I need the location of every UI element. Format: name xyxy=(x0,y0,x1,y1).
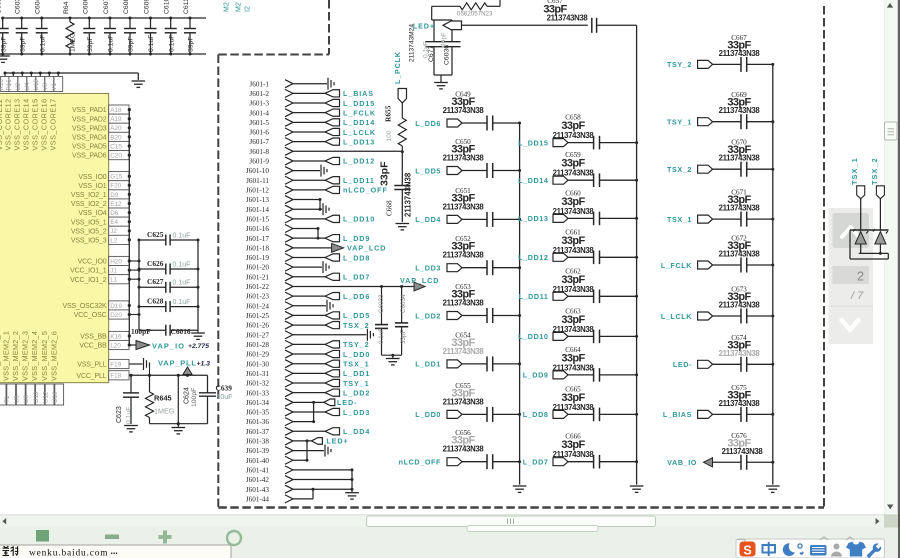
svg-text:J601-39: J601-39 xyxy=(246,447,270,455)
capacitor C655 33pF xyxy=(447,410,462,418)
capacitor C661 33pF xyxy=(553,253,568,261)
svg-text:VSS_IO0: VSS_IO0 xyxy=(78,174,106,181)
svg-text:D19: D19 xyxy=(110,303,122,310)
UI nav up button xyxy=(833,213,870,248)
svg-text:J601-26: J601-26 xyxy=(246,322,270,330)
capacitor C671 33pF xyxy=(698,215,713,223)
wire center branch xyxy=(177,375,179,423)
svg-text:F18: F18 xyxy=(110,373,121,380)
svg-text:2113743N38: 2113743N38 xyxy=(404,172,413,217)
wire column2 bus xyxy=(636,25,638,484)
wire J601-38 xyxy=(293,440,311,442)
UI scrollbar thumb xyxy=(885,122,898,140)
svg-text:VCC_IO1_1: VCC_IO1_1 xyxy=(70,268,107,275)
UI sogou moon icon xyxy=(783,543,796,556)
wire join 38-40 xyxy=(306,441,308,460)
wire J601-33 xyxy=(293,392,325,394)
svg-text:2113743N38: 2113743N38 xyxy=(443,299,485,308)
svg-text:TSX_1: TSX_1 xyxy=(343,359,369,368)
svg-text:J601-13: J601-13 xyxy=(246,196,270,204)
svg-text:L_DD6: L_DD6 xyxy=(415,119,441,128)
svg-text:L_LCLK: L_LCLK xyxy=(343,128,376,137)
svg-text:R16: R16 xyxy=(0,79,5,91)
svg-text:TSX_1: TSX_1 xyxy=(667,215,692,224)
svg-text:39pF: 39pF xyxy=(188,37,195,53)
svg-text:L_DD0: L_DD0 xyxy=(343,350,370,359)
svg-text:39pF: 39pF xyxy=(87,37,94,53)
UI scrollbar corner xyxy=(884,515,900,528)
svg-text:J2: J2 xyxy=(110,228,117,235)
svg-text:Y1: Y1 xyxy=(51,82,58,90)
net label TSX_2 xyxy=(325,321,340,328)
wire J601-14 xyxy=(293,208,322,210)
svg-text:2113743N38: 2113743N38 xyxy=(719,49,761,58)
net label L_DD2 xyxy=(325,389,340,396)
svg-text:VSS_CORE17: VSS_CORE17 xyxy=(49,98,58,150)
svg-text:0.1uF: 0.1uF xyxy=(126,407,133,424)
svg-text:C6034: C6034 xyxy=(400,294,407,313)
svg-text:2113743N38: 2113743N38 xyxy=(719,154,761,163)
svg-text:S: S xyxy=(743,544,751,558)
net label L_BIAS xyxy=(325,90,340,97)
junction pin K16 xyxy=(128,334,131,337)
svg-text:C607: C607 xyxy=(103,0,110,14)
capacitor C665 33pF xyxy=(553,410,568,418)
svg-text:J601-22: J601-22 xyxy=(246,283,270,291)
svg-text:J601-25: J601-25 xyxy=(246,312,270,320)
ground (C677) xyxy=(434,82,448,84)
svg-text:2113743N38: 2113743N38 xyxy=(553,285,595,294)
svg-text:1MEG: 1MEG xyxy=(154,407,175,416)
svg-text:2113743N38: 2113743N38 xyxy=(443,106,485,115)
junction pin L2 xyxy=(128,238,131,241)
svg-text:R64: R64 xyxy=(63,1,70,14)
capacitor C672 33pF xyxy=(698,261,713,269)
UI status text 等待 xyxy=(3,546,19,556)
svg-text:VSS_IO1: VSS_IO1 xyxy=(78,183,106,190)
junction pin F20 xyxy=(128,184,131,187)
svg-text:L_DD7: L_DD7 xyxy=(343,273,370,282)
svg-text:C624: C624 xyxy=(184,387,191,404)
pin U4 VSS_CORE xyxy=(30,72,33,75)
svg-text:U8: U8 xyxy=(23,395,30,403)
svg-text:L_DD4: L_DD4 xyxy=(415,215,441,224)
svg-text:J601-23: J601-23 xyxy=(246,293,270,301)
net label L_DD1 xyxy=(325,370,340,377)
svg-text:J601-17: J601-17 xyxy=(246,235,270,243)
junction pin D20 xyxy=(128,313,131,316)
svg-text:J1: J1 xyxy=(110,268,117,275)
svg-text:J601-18: J601-18 xyxy=(246,244,270,252)
pin U8 VSS_MEM2_3 xyxy=(26,384,35,405)
svg-text:C626: C626 xyxy=(147,259,164,268)
wire J601-28 xyxy=(293,343,325,345)
svg-text:33pF: 33pF xyxy=(400,329,407,344)
svg-text:J601-15: J601-15 xyxy=(246,215,270,223)
UI hscroll thumb xyxy=(367,516,656,527)
UI sogou S logo xyxy=(740,542,756,557)
capacitor C674 33pF xyxy=(698,360,713,368)
svg-text:VSS_IO5_3: VSS_IO5_3 xyxy=(71,238,107,245)
wire VCC pin to rail xyxy=(129,260,139,262)
wire J601-27 xyxy=(293,334,366,336)
svg-text:2113743N38: 2113743N38 xyxy=(553,131,595,140)
net label L_DD4 xyxy=(325,428,340,435)
svg-text:VCC_OSC: VCC_OSC xyxy=(74,312,107,319)
svg-text:2113743N38: 2113743N38 xyxy=(443,251,485,260)
ground (column2) xyxy=(630,485,644,487)
svg-text:C639: C639 xyxy=(216,384,233,393)
UI hscroll left arrow xyxy=(2,518,6,524)
wire join 34-36 xyxy=(313,402,315,421)
UI sogou wrench icon xyxy=(867,543,882,558)
capacitor C669 33pF xyxy=(698,118,713,126)
svg-text:H20: H20 xyxy=(110,258,122,265)
wire PLL bottom rail xyxy=(150,423,208,425)
wire J601-18 xyxy=(293,247,332,249)
svg-text:TSY_2: TSY_2 xyxy=(343,340,369,349)
svg-text:C6036: C6036 xyxy=(444,45,451,65)
wire J601-39 xyxy=(293,450,324,452)
svg-text:I2: I2 xyxy=(245,6,252,12)
svg-text:R645: R645 xyxy=(154,393,172,402)
svg-text:C608: C608 xyxy=(123,0,130,14)
wire J601-42 xyxy=(293,479,352,481)
wire J601-41 xyxy=(293,469,352,471)
svg-text:39pF: 39pF xyxy=(128,37,135,53)
power port VAB_IO xyxy=(704,458,713,467)
wire top bypass rail xyxy=(3,17,206,19)
wire diode cathode bar xyxy=(850,229,889,231)
svg-text:2113743N38: 2113743N38 xyxy=(443,202,485,211)
svg-text:L_FCLK: L_FCLK xyxy=(661,261,692,270)
svg-text:VSS_IO5_2: VSS_IO5_2 xyxy=(71,228,107,235)
wire J601-22 xyxy=(293,285,414,287)
wire TSX drop xyxy=(860,199,862,230)
svg-text:L_BIAS: L_BIAS xyxy=(663,410,692,419)
svg-text:2113743N38: 2113743N38 xyxy=(719,399,761,408)
svg-text:L_DD12: L_DD12 xyxy=(343,157,375,166)
svg-text:2113743N38: 2113743N38 xyxy=(443,397,485,406)
ground (J601-1) xyxy=(327,78,329,90)
ground (J601-27) xyxy=(366,329,368,341)
svg-text:J601-35: J601-35 xyxy=(246,409,270,417)
svg-text:J601-14: J601-14 xyxy=(246,206,270,214)
svg-text:VSS_PAD2: VSS_PAD2 xyxy=(72,116,107,123)
wire J601-19 xyxy=(293,256,325,258)
resistor R655 100 xyxy=(401,103,403,118)
svg-text:VSS_PLL: VSS_PLL xyxy=(77,362,107,369)
svg-text:J601-40: J601-40 xyxy=(246,457,270,465)
wire VSS_CORE top rail xyxy=(5,72,138,74)
power port VAP_IO +2.775 xyxy=(129,344,136,346)
pin U12 VSS_MEM2_5 xyxy=(45,384,54,405)
wire J601-21 xyxy=(293,276,325,278)
wire join 43-44 xyxy=(312,489,314,499)
svg-text:D9: D9 xyxy=(110,192,119,199)
svg-text:VSS_CORE13: VSS_CORE13 xyxy=(13,98,22,150)
wire VCC pin to rail xyxy=(129,314,139,316)
svg-text:2113743N38: 2113743N38 xyxy=(719,349,761,358)
svg-text:J601-1: J601-1 xyxy=(249,80,269,88)
svg-text:R655: R655 xyxy=(384,105,393,122)
svg-text:J601-27: J601-27 xyxy=(246,331,270,339)
svg-text:P16: P16 xyxy=(6,79,13,91)
svg-text:J601-8: J601-8 xyxy=(249,148,269,156)
UI toolbar icon circle xyxy=(227,531,241,545)
capacitor C652 33pF xyxy=(447,264,462,272)
ground (J601-10) xyxy=(320,165,322,177)
junction pin L1 xyxy=(128,278,131,281)
svg-text:VSS_PAD4: VSS_PAD4 xyxy=(72,135,107,142)
svg-text:/ 7: / 7 xyxy=(850,290,864,302)
svg-text:2113743N38: 2113743N38 xyxy=(553,363,595,372)
svg-text:L_DD11: L_DD11 xyxy=(519,292,549,301)
svg-text:VSS_MEM2_5: VSS_MEM2_5 xyxy=(40,331,49,381)
svg-text:33pF: 33pF xyxy=(379,161,391,186)
capacitor C656 33pF xyxy=(447,458,462,466)
UI sogou punct icon xyxy=(798,544,802,548)
net label TSY_1 xyxy=(325,379,340,386)
svg-text:L_DD6: L_DD6 xyxy=(343,292,370,301)
UI scrollbar down arrow xyxy=(887,505,893,510)
svg-text:L20: L20 xyxy=(110,342,121,349)
svg-text:VSS_PAD1: VSS_PAD1 xyxy=(72,107,107,114)
svg-text:2113743N38: 2113743N38 xyxy=(719,250,761,259)
wire TSX drop xyxy=(879,199,881,230)
svg-text:C627: C627 xyxy=(147,277,164,286)
svg-text:VSS_MEM2_6: VSS_MEM2_6 xyxy=(49,331,58,381)
wire VSS bus xyxy=(128,110,130,345)
pin U18 VSS_CORE xyxy=(39,72,42,75)
svg-text:L_PCLK: L_PCLK xyxy=(393,51,402,84)
svg-text:0.1uF: 0.1uF xyxy=(378,328,385,344)
svg-text:VSS_CORE16: VSS_CORE16 xyxy=(40,98,49,150)
svg-text:N1: N1 xyxy=(0,395,1,403)
junction pin C15 xyxy=(128,144,131,147)
pin V3 VSS_CORE xyxy=(48,72,51,75)
svg-text:L_DD7: L_DD7 xyxy=(523,458,549,467)
ground (C623) xyxy=(124,425,138,427)
capacitor C658 33pF xyxy=(553,139,568,147)
junction pin J2 xyxy=(128,229,131,232)
svg-text:J601-5: J601-5 xyxy=(249,119,269,127)
net label L_DD13 xyxy=(325,138,340,145)
svg-text:C603: C603 xyxy=(15,0,22,14)
svg-text:J601-31: J601-31 xyxy=(246,370,270,378)
UI sogou person icon xyxy=(834,544,840,550)
svg-text:J601-36: J601-36 xyxy=(246,418,270,426)
svg-text:VSS_CORE14: VSS_CORE14 xyxy=(22,98,31,150)
svg-text:L_DD14: L_DD14 xyxy=(518,176,548,185)
pin P16 VSS_CORE xyxy=(12,72,15,75)
svg-text:C609: C609 xyxy=(144,0,151,14)
wire J601-32 xyxy=(293,382,325,384)
svg-text:VSS_MEM2_3: VSS_MEM2_3 xyxy=(21,331,30,381)
svg-text:C611: C611 xyxy=(183,0,190,14)
wire rail A xyxy=(138,240,140,330)
UI nav down button xyxy=(842,320,859,330)
svg-text:C606: C606 xyxy=(82,0,89,14)
svg-text:2113743N38: 2113743N38 xyxy=(443,445,485,454)
wire bypass bottom rail xyxy=(0,53,206,55)
capacitor C666 33pF xyxy=(553,458,568,466)
svg-text:+2.775: +2.775 xyxy=(188,343,209,350)
svg-text:VSS_CORE15: VSS_CORE15 xyxy=(31,98,40,150)
svg-text:VCC_IO0: VCC_IO0 xyxy=(78,259,107,266)
capacitor C675 33pF xyxy=(698,410,713,418)
ground (column1) xyxy=(513,485,527,487)
net label L_DD3 xyxy=(325,408,340,415)
wire J601-17 xyxy=(293,237,325,239)
capacitor C6034 33pF xyxy=(401,286,403,322)
svg-text:VSS_OSC32K: VSS_OSC32K xyxy=(62,303,107,310)
capacitor C677 0.1uF xyxy=(433,20,435,42)
svg-text:2113743N38: 2113743N38 xyxy=(443,154,485,163)
svg-text:L_DD2: L_DD2 xyxy=(343,388,370,397)
ground (VSS_CORE rail) xyxy=(132,80,146,82)
svg-text:J601-16: J601-16 xyxy=(246,225,270,233)
UI scrollbar up arrow xyxy=(887,3,893,8)
svg-text:J601-33: J601-33 xyxy=(246,389,270,397)
UI toolbar icon square xyxy=(36,530,49,542)
svg-text:100pF: 100pF xyxy=(191,388,198,407)
svg-text:VCC_IO1_2: VCC_IO1_2 xyxy=(70,277,107,284)
wire J601-2 xyxy=(293,92,325,94)
net label L_DD5 xyxy=(325,312,340,319)
svg-text:J601-11: J601-11 xyxy=(246,177,269,185)
net label L_DD15 xyxy=(325,99,340,106)
svg-text:VSS_PAD3: VSS_PAD3 xyxy=(72,125,107,132)
wire VCC pin to rail xyxy=(129,278,139,280)
pin Y1 VSS_CORE xyxy=(57,72,60,75)
ground (J601-39) xyxy=(324,445,326,457)
junction pin B20 xyxy=(128,135,131,138)
capacitor C676 33pF xyxy=(713,461,742,463)
wire join 16-17 xyxy=(317,229,319,239)
ground (J601-14) xyxy=(322,203,324,215)
ground (PLL rail) xyxy=(177,424,179,427)
capacitor C625 0.1uF xyxy=(139,239,166,241)
capacitor C6033 0.1uF xyxy=(381,286,383,324)
svg-text:LED+: LED+ xyxy=(326,437,348,446)
wire column1 bus xyxy=(519,123,521,485)
wire RC bottom xyxy=(382,354,402,356)
svg-text:U18: U18 xyxy=(33,79,40,91)
capacitor C603 39pF xyxy=(21,18,23,29)
svg-text:L_DD4: L_DD4 xyxy=(343,427,370,436)
ground (column3) xyxy=(766,485,780,487)
pin N1 VSS_MEM1_3 xyxy=(0,384,6,405)
svg-text:L_DD8: L_DD8 xyxy=(523,410,549,419)
UI vertical scrollbar xyxy=(885,0,900,515)
wire VCC pin to rail xyxy=(129,269,139,271)
capacitor C626 0.1uF xyxy=(139,268,166,270)
svg-text:2113743N38: 2113743N38 xyxy=(553,325,595,334)
svg-text:VAP_IO: VAP_IO xyxy=(152,341,185,350)
svg-text:VSS_IO2_2: VSS_IO2_2 xyxy=(71,201,107,208)
schematic dashed border (left sheet) xyxy=(328,0,330,55)
svg-text:L_DD13: L_DD13 xyxy=(343,137,375,146)
svg-text:TSY_1: TSY_1 xyxy=(343,379,369,388)
svg-text:0.1uF: 0.1uF xyxy=(108,35,115,52)
net label L_FCLK xyxy=(325,109,340,116)
svg-text:TSX_2: TSX_2 xyxy=(343,321,369,330)
wire diode bottom xyxy=(859,252,889,254)
svg-text:VSS_BB: VSS_BB xyxy=(80,334,107,341)
svg-text:2113743N38: 2113743N38 xyxy=(719,204,761,213)
svg-text:VSS_PAD5: VSS_PAD5 xyxy=(72,144,107,151)
wire J601-26 xyxy=(293,324,325,326)
svg-text:J601-42: J601-42 xyxy=(246,476,270,484)
svg-text:U4: U4 xyxy=(24,82,31,90)
svg-text:L_FCLK: L_FCLK xyxy=(343,108,376,117)
capacitor C662 33pF xyxy=(553,292,568,300)
svg-text:F20: F20 xyxy=(110,183,121,190)
wire diode anode xyxy=(860,244,862,253)
power port VAP_LCD xyxy=(332,243,344,252)
wire J601-7 xyxy=(293,141,325,143)
svg-text:J601-34: J601-34 xyxy=(246,399,270,407)
UI sogou tshirt icon xyxy=(846,542,866,557)
svg-text:VSS_IO2_1: VSS_IO2_1 xyxy=(71,192,107,199)
svg-text:VSS_PAD6: VSS_PAD6 xyxy=(72,153,107,160)
svg-text:J601-28: J601-28 xyxy=(246,341,270,349)
svg-text:L_DD5: L_DD5 xyxy=(415,166,441,175)
svg-text:J601-19: J601-19 xyxy=(246,254,270,262)
svg-text:C602: C602 xyxy=(0,0,3,14)
wire J601-25 xyxy=(293,314,325,316)
svg-text:K16: K16 xyxy=(110,333,122,340)
svg-text:L_DD2: L_DD2 xyxy=(415,311,441,320)
wire J601-3 xyxy=(293,102,325,104)
svg-text:L_DD12: L_DD12 xyxy=(518,253,548,262)
wire VSS_PLL stub xyxy=(129,363,142,365)
svg-text:0.1uF: 0.1uF xyxy=(148,35,155,52)
svg-text:VSS_CORE12: VSS_CORE12 xyxy=(4,98,13,150)
svg-text:VAP_LCD: VAP_LCD xyxy=(400,276,439,285)
pin R16 VSS_CORE xyxy=(4,72,7,75)
wire J601-16 xyxy=(293,228,318,230)
wire J601-29 xyxy=(293,353,325,355)
capacitor C604 0.1uF xyxy=(41,18,43,29)
net label nLCD_OFF xyxy=(325,186,340,193)
UI sogou zhong icon xyxy=(763,542,776,556)
ground (bypass rail) xyxy=(0,55,10,57)
wire J601-30 xyxy=(293,363,325,365)
svg-text:J601-2: J601-2 xyxy=(249,90,269,98)
svg-text:G15: G15 xyxy=(110,174,123,181)
pin U16 VSS_MEM2_6 xyxy=(55,384,64,405)
UI nav page box xyxy=(833,266,870,284)
svg-text:VAP_LCD: VAP_LCD xyxy=(347,244,386,253)
svg-text:J601-29: J601-29 xyxy=(246,351,270,359)
capacitor C6036 39pF xyxy=(451,20,453,42)
wire return loop xyxy=(849,230,851,259)
svg-text:L_DD1: L_DD1 xyxy=(415,360,441,369)
svg-text:2113743N38: 2113743N38 xyxy=(553,246,595,255)
svg-text:L2: L2 xyxy=(110,237,118,244)
svg-text:C610: C610 xyxy=(164,0,171,14)
junction pin G15 xyxy=(128,175,131,178)
net label L_DD12 xyxy=(325,157,340,164)
J601 sheet dashed border xyxy=(217,55,219,509)
svg-text:2: 2 xyxy=(857,270,864,284)
svg-text:E4: E4 xyxy=(110,219,118,226)
net label TSY_2 xyxy=(325,341,340,348)
svg-text:VSS_MEM2_4: VSS_MEM2_4 xyxy=(30,331,39,381)
diode ESD xyxy=(875,232,886,245)
